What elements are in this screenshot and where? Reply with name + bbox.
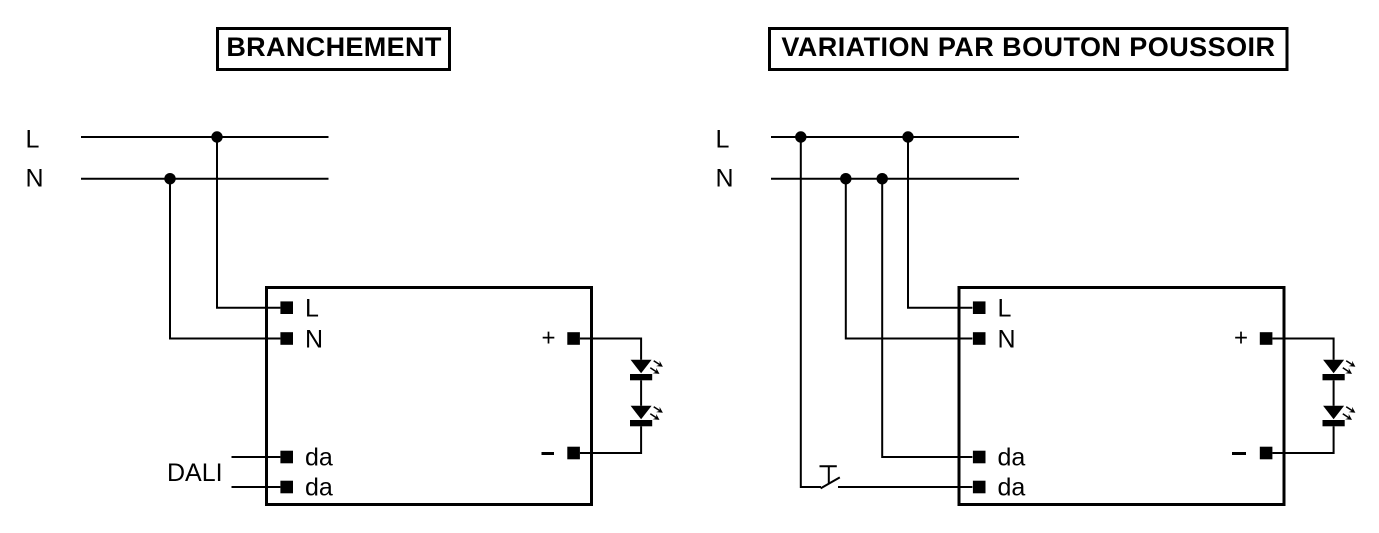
- wire N bus (left): [81, 178, 329, 180]
- wire DALI to da2: [232, 486, 281, 488]
- junction dot N bus to terminal N (right): [840, 173, 851, 184]
- junction dot L bus to terminal L (right): [902, 131, 913, 142]
- pin label L (right): [998, 295, 1012, 323]
- label DALI: [167, 459, 223, 487]
- terminal square da2 (left): [280, 481, 293, 494]
- label N (right mains): [716, 165, 734, 193]
- wire between LEDs (right): [1333, 380, 1335, 406]
- label minus (right): [1232, 452, 1246, 455]
- terminal square da1 (left): [280, 451, 293, 464]
- junction dot L bus to button (right): [795, 131, 806, 142]
- push button S1: [820, 466, 840, 488]
- emission arrows D4 (right): [1343, 407, 1356, 420]
- svg-text:N: N: [26, 165, 44, 193]
- svg-text:+: +: [542, 325, 556, 352]
- wire L bus (right): [771, 136, 1019, 138]
- terminal square L (left): [280, 301, 293, 314]
- junction dot on L bus (left): [211, 131, 222, 142]
- svg-text:+: +: [1234, 325, 1248, 352]
- junction dot N bus to terminal da1 (right): [877, 173, 888, 184]
- terminal square minus (right): [1260, 447, 1273, 460]
- LED D1 (left): [630, 360, 652, 381]
- wire between LEDs (left): [640, 380, 642, 406]
- wire N bus to terminal da1 (right): [882, 179, 972, 457]
- pin label da2 (left): [305, 474, 333, 502]
- svg-text:da: da: [305, 474, 333, 502]
- wire LED string to minus (left): [580, 426, 641, 453]
- title box BRANCHEMENT: [218, 29, 450, 70]
- svg-text:L: L: [305, 295, 319, 323]
- pin label da1 (left): [305, 444, 333, 472]
- driver box (right): [959, 288, 1284, 505]
- pin label N (right): [998, 326, 1016, 354]
- emission arrows D1 (left): [650, 361, 663, 374]
- wire N bus to terminal N (right): [846, 179, 973, 339]
- svg-text:N: N: [305, 326, 323, 354]
- svg-text:DALI: DALI: [167, 459, 223, 487]
- terminal square da2 (right): [973, 481, 986, 494]
- label L (left mains): [26, 126, 40, 154]
- wire push button to terminal da2 (right): [838, 486, 972, 488]
- wire DALI to da1: [232, 456, 281, 458]
- title box VARIATION PAR BOUTON POUSSOIR: [770, 29, 1288, 70]
- pin label da1 (right): [998, 444, 1026, 472]
- wire plus to LED string (left): [580, 339, 641, 360]
- wire L bus to terminal L (right): [908, 137, 972, 308]
- terminal square minus (left): [567, 447, 580, 460]
- svg-text:N: N: [716, 165, 734, 193]
- emission arrows D2 (left): [650, 407, 663, 420]
- pin label N (left): [305, 326, 323, 354]
- wire plus to LED string (right): [1272, 339, 1333, 360]
- svg-text:da: da: [998, 474, 1026, 502]
- label N (left mains): [26, 165, 44, 193]
- wire N bus to terminal N (left): [170, 179, 280, 339]
- wire L bus to terminal L (left): [217, 137, 280, 308]
- terminal square plus (left): [567, 332, 580, 345]
- terminal square L (right): [973, 301, 986, 314]
- svg-text:da: da: [998, 444, 1026, 472]
- LED D3 (right): [1323, 360, 1345, 381]
- wire LED string to minus (right): [1272, 426, 1333, 453]
- svg-text:BRANCHEMENT: BRANCHEMENT: [226, 32, 441, 62]
- svg-text:L: L: [716, 126, 730, 154]
- driver box (left): [267, 288, 592, 505]
- junction dot on N bus (left): [164, 173, 175, 184]
- pin label L (left): [305, 295, 319, 323]
- terminal square plus (right): [1260, 332, 1273, 345]
- terminal square da1 (right): [973, 451, 986, 464]
- LED D4 (right): [1323, 406, 1345, 427]
- LED D2 (left): [630, 406, 652, 427]
- svg-text:da: da: [305, 444, 333, 472]
- label plus (right): [1234, 325, 1248, 352]
- svg-text:L: L: [998, 295, 1012, 323]
- emission arrows D3 (right): [1343, 361, 1356, 374]
- wire L bus (left): [81, 136, 329, 138]
- label minus (left): [542, 452, 555, 455]
- svg-text:N: N: [998, 326, 1016, 354]
- terminal square N (left): [280, 332, 293, 345]
- svg-text:VARIATION PAR BOUTON POUSSOIR: VARIATION PAR BOUTON POUSSOIR: [781, 32, 1275, 62]
- label L (right mains): [716, 126, 730, 154]
- wire N bus (right): [771, 178, 1019, 180]
- terminal square N (right): [973, 332, 986, 345]
- pin label da2 (right): [998, 474, 1026, 502]
- label plus (left): [542, 325, 556, 352]
- svg-text:L: L: [26, 126, 40, 154]
- wire L bus down to push button (right): [801, 137, 821, 487]
